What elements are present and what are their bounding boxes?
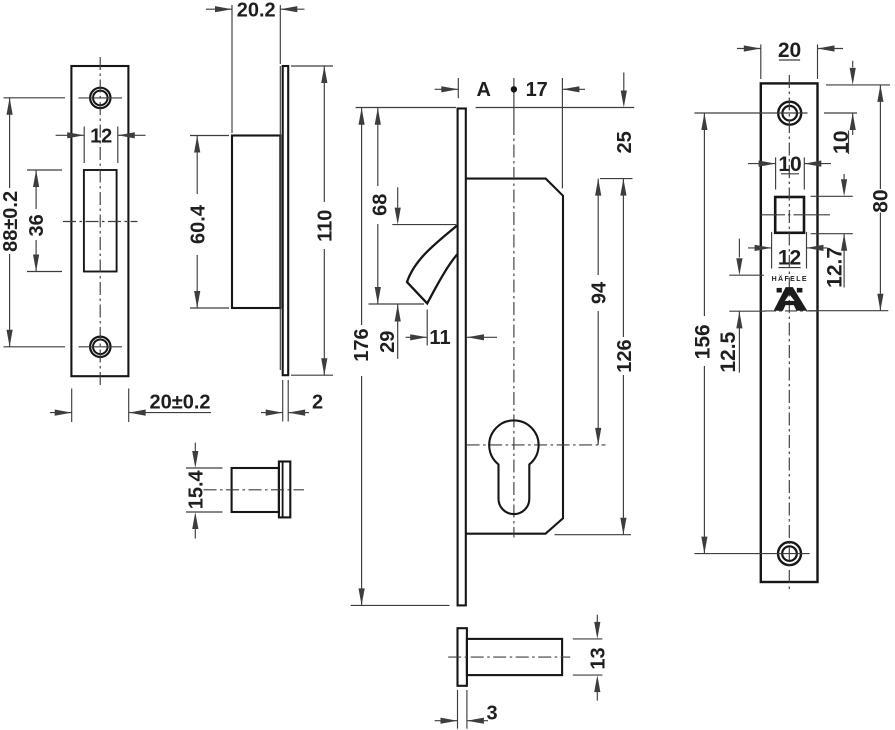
dimension 60.4 (box height)	[190, 135, 229, 137]
dimension 126	[622, 179, 624, 337]
dimension 88±0.2 (screw hole spacing)	[4, 97, 66, 99]
strike plate side view plate	[283, 66, 289, 375]
svg-text:176: 176	[351, 328, 373, 361]
magnet pin centerline	[204, 489, 305, 491]
dimension 2 (plate thickness)	[282, 380, 284, 422]
dimension 12 (hub width)	[771, 232, 773, 269]
cylinder axis line	[729, 310, 765, 312]
svg-text:12: 12	[90, 125, 112, 147]
dimension 12 (slot width)	[83, 127, 85, 164]
dimension 68	[377, 108, 379, 186]
svg-text:156: 156	[692, 324, 715, 359]
pin centerline	[448, 656, 570, 658]
svg-text:80: 80	[869, 189, 892, 212]
lock case outline	[466, 179, 563, 534]
magnet pin body	[232, 468, 279, 512]
svg-text:12.7: 12.7	[823, 247, 846, 288]
square hole horizontal centerline	[761, 214, 777, 216]
dimension 20±0.2 (plate width)	[71, 389, 73, 423]
plate top extension line right	[826, 84, 890, 86]
svg-text:2: 2	[312, 392, 323, 414]
strike plate side view face line	[279, 66, 281, 370]
strike plate vertical centerline	[99, 57, 101, 386]
screw hole tick top	[770, 112, 808, 114]
12.5 top extension line left	[729, 274, 763, 276]
dimension 10 vertical (top to screw center)	[852, 61, 854, 68]
dimension 176	[361, 108, 363, 325]
dimension A (backset)	[435, 88, 459, 90]
strike plate top screw hole	[90, 88, 110, 108]
reference dot on cylinder axis	[511, 87, 516, 92]
svg-text:60.4: 60.4	[188, 204, 210, 244]
svg-text:A: A	[476, 79, 490, 101]
dimension 94	[597, 179, 599, 275]
faceplate top extension line	[356, 107, 456, 109]
square hole top extension right	[811, 195, 853, 197]
front faceplate top screw hole	[778, 102, 801, 125]
svg-text:12.5: 12.5	[717, 331, 740, 372]
dimension 15.4 (pin diameter)	[186, 467, 223, 469]
case bottom extension line	[555, 534, 632, 536]
svg-text:20.2: 20.2	[237, 0, 276, 22]
strike plate horizontal centerline	[63, 221, 138, 223]
svg-text:17: 17	[526, 79, 548, 101]
strike plate front view: plate outline	[71, 66, 128, 376]
lock vertical centerline	[513, 78, 515, 122]
pin body	[467, 639, 562, 675]
dimension 25	[623, 73, 625, 91]
lock cylinder horizontal centerline	[467, 444, 606, 446]
svg-text:15.4: 15.4	[186, 469, 208, 509]
case top extension line	[600, 178, 633, 180]
dimension 12.7 (square hole height)	[843, 174, 845, 180]
screw center extension line right	[824, 112, 857, 114]
Häfele logo Ä mark	[774, 287, 808, 311]
svg-text:68: 68	[370, 194, 392, 216]
dimension 80 (top to cylinder axis)	[879, 85, 881, 189]
svg-text:36: 36	[26, 214, 48, 236]
magnet pin flange	[279, 462, 290, 518]
lock faceplate side view	[458, 109, 466, 606]
svg-text:20±0.2: 20±0.2	[149, 392, 210, 414]
svg-text:29: 29	[377, 331, 399, 353]
svg-text:10: 10	[830, 131, 853, 154]
strike box (dust box) side view	[232, 136, 280, 309]
svg-text:10: 10	[778, 153, 801, 176]
svg-text:3: 3	[486, 703, 497, 725]
svg-text:126: 126	[614, 339, 636, 372]
strike plate bottom screw hole	[90, 337, 110, 357]
dimension 13 (pin diameter)	[573, 638, 603, 640]
dimension 11	[426, 310, 428, 346]
dimension 3 (flange thickness)	[457, 690, 459, 729]
hook bottom extension line	[369, 303, 425, 305]
svg-text:88±0.2: 88±0.2	[0, 191, 22, 252]
dimension 20 (faceplate width)	[760, 44, 762, 79]
svg-text:13: 13	[588, 647, 610, 669]
hook bolt	[407, 225, 457, 303]
svg-text:20: 20	[778, 39, 801, 62]
square hole bottom extension right	[811, 233, 853, 235]
pin flange	[458, 628, 467, 686]
strike plate latch slot	[84, 170, 117, 272]
hook top extension line	[392, 224, 456, 226]
dimension 10 horizontal (square hole width)	[775, 157, 777, 189]
magnet pin flange inner line	[282, 462, 284, 518]
front faceplate vertical centerline	[788, 75, 790, 591]
dimension 20.2 (box depth)	[231, 5, 233, 133]
svg-text:110: 110	[315, 210, 337, 242]
svg-text:25: 25	[614, 131, 636, 153]
dimension 29	[397, 187, 399, 207]
front faceplate outline	[761, 83, 818, 582]
svg-text:HÄFELE: HÄFELE	[772, 275, 808, 283]
svg-text:11: 11	[429, 327, 450, 349]
svg-text:94: 94	[589, 281, 611, 304]
dimension 36 (slot height)	[27, 169, 62, 171]
front faceplate square follower hole	[775, 197, 804, 233]
dimension 12.5	[738, 239, 740, 258]
front faceplate bottom screw hole	[778, 542, 801, 565]
faceplate bottom extension line	[351, 604, 450, 606]
svg-text:12: 12	[778, 247, 801, 270]
dimension 156 (screw spacing)	[694, 112, 770, 114]
euro profile cylinder hole	[489, 420, 538, 514]
dimension 110 (plate height)	[291, 65, 333, 67]
